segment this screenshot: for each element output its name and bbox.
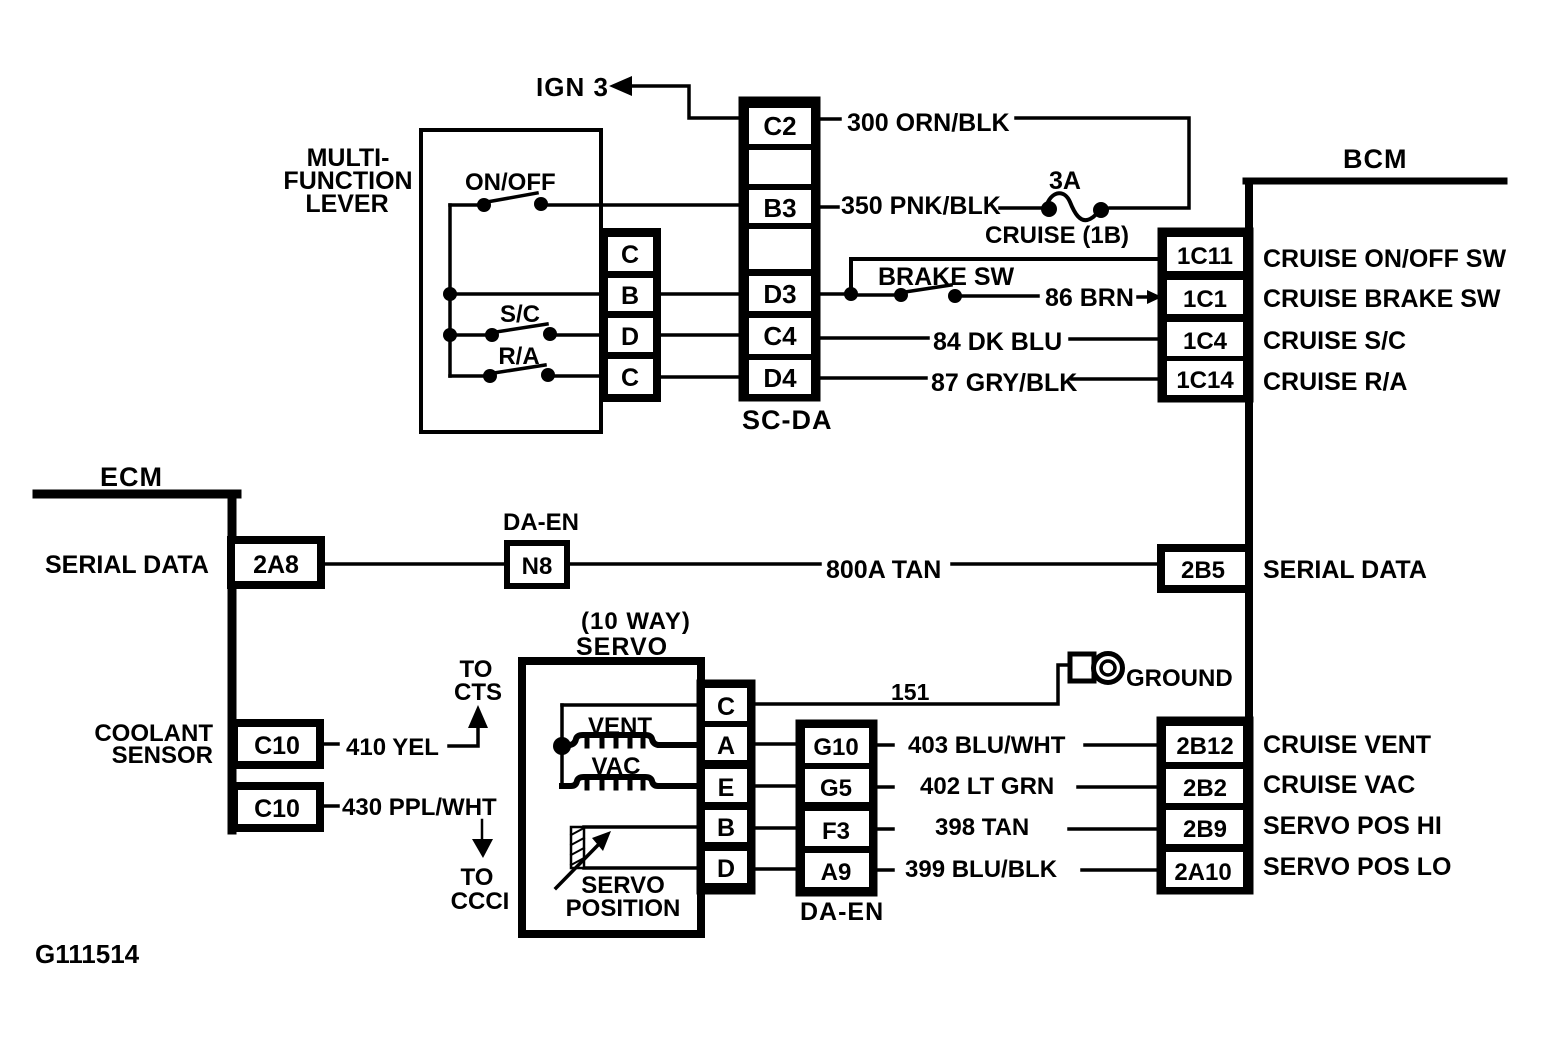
label COOLANT SENSOR <box>94 720 213 769</box>
svg-text:TO: TO <box>461 864 494 891</box>
wire 399 to 2A10 <box>1082 868 1160 872</box>
connector BCM group 1 outer <box>1160 230 1251 400</box>
svg-text:399 BLU/BLK: 399 BLU/BLK <box>905 856 1058 883</box>
wire servo common vertical <box>560 705 564 786</box>
arrowhead TO CCCI <box>472 839 493 858</box>
switch R/A <box>450 365 555 383</box>
connector cell D servo <box>705 851 747 883</box>
svg-text:2B9: 2B9 <box>1183 816 1227 843</box>
junction dot S/C row <box>443 328 457 342</box>
label TO CTS <box>454 656 502 706</box>
junction dot B row <box>443 287 457 301</box>
connector cell A servo <box>705 727 747 760</box>
connector servo 10-way outer <box>699 682 753 892</box>
switch ON/OFF <box>450 193 548 212</box>
potentiometer track servo position <box>571 827 584 868</box>
wire 151 ground <box>753 665 1070 704</box>
connector cell B servo <box>705 810 747 842</box>
arrowhead TO CTS <box>468 705 488 728</box>
wire F3 tick <box>875 827 893 831</box>
switch S/C <box>450 324 557 342</box>
svg-text:SC-DA: SC-DA <box>742 405 833 435</box>
svg-text:SERIAL DATA: SERIAL DATA <box>1263 556 1427 584</box>
potentiometer wiper arrow <box>556 831 611 888</box>
wire D3 to brake junction <box>818 292 848 296</box>
svg-text:D4: D4 <box>763 363 797 393</box>
connector cell C2 <box>749 108 811 144</box>
BCM top line <box>1246 178 1504 185</box>
svg-text:SERIAL DATA: SERIAL DATA <box>45 551 209 579</box>
svg-text:IGN 3: IGN 3 <box>536 72 609 102</box>
svg-text:G10: G10 <box>813 734 858 761</box>
wire B3 tick <box>818 205 838 209</box>
switch BRAKE SW <box>855 285 962 303</box>
connector cell G10 <box>805 728 869 763</box>
svg-text:300 ORN/BLK: 300 ORN/BLK <box>847 109 1010 137</box>
svg-text:POSITION: POSITION <box>566 895 681 922</box>
multi-function lever box <box>421 130 601 432</box>
connector cell D <box>608 318 653 352</box>
svg-text:SERVO POS LO: SERVO POS LO <box>1263 853 1451 881</box>
svg-text:CRUISE R/A: CRUISE R/A <box>1263 368 1407 396</box>
svg-text:A: A <box>717 732 735 760</box>
svg-text:1C4: 1C4 <box>1183 328 1228 355</box>
connector cell 1C1 <box>1167 280 1243 314</box>
svg-text:2A8: 2A8 <box>253 551 299 579</box>
connector cell E servo <box>705 769 747 802</box>
wire cell B to cell D3 <box>659 292 744 296</box>
coil VENT <box>562 735 702 746</box>
svg-text:2B12: 2B12 <box>1176 733 1233 760</box>
connector cell C servo <box>705 688 747 721</box>
svg-text:D: D <box>717 855 735 883</box>
svg-text:CRUISE VENT: CRUISE VENT <box>1263 731 1431 759</box>
svg-text:GROUND: GROUND <box>1126 665 1233 692</box>
svg-text:CCCI: CCCI <box>451 888 510 915</box>
wire S/C switch to cell D <box>554 333 604 337</box>
svg-text:CRUISE BRAKE SW: CRUISE BRAKE SW <box>1263 285 1501 313</box>
svg-text:C10: C10 <box>254 732 300 760</box>
connector N8 <box>507 543 567 586</box>
svg-text:151: 151 <box>891 679 930 705</box>
svg-text:87 GRY/BLK: 87 GRY/BLK <box>931 369 1077 397</box>
fuse 3A CRUISE <box>1041 193 1109 220</box>
svg-text:CRUISE S/C: CRUISE S/C <box>1263 327 1406 355</box>
wire A9 tick <box>875 868 893 872</box>
wire 84 DK BLU to 1C4 <box>1070 337 1162 341</box>
wire N8 to 800A TAN <box>570 562 820 566</box>
svg-text:C2: C2 <box>763 111 796 141</box>
wire C4 to 84 DK BLU <box>818 336 928 340</box>
svg-text:1C11: 1C11 <box>1177 243 1233 270</box>
svg-text:C10: C10 <box>254 795 300 823</box>
wire cell B to F3 <box>753 826 800 830</box>
svg-text:E: E <box>718 774 735 802</box>
connector SC-DA outer <box>741 99 818 399</box>
wire C10 upper tick <box>325 742 338 746</box>
connector C10 upper <box>234 723 320 765</box>
wire IGN3 feed to connector cell C2 <box>629 86 744 118</box>
svg-text:ON/OFF: ON/OFF <box>465 169 556 196</box>
wire D4 to 87 GRY/BLK <box>818 376 926 380</box>
svg-text:ECM: ECM <box>100 462 163 492</box>
svg-text:C4: C4 <box>763 321 797 351</box>
wire cell A to G10 <box>753 742 800 746</box>
svg-text:402 LT GRN: 402 LT GRN <box>920 773 1054 800</box>
svg-text:SERVO POS HI: SERVO POS HI <box>1263 812 1442 840</box>
svg-text:CRUISE (1B): CRUISE (1B) <box>985 222 1129 249</box>
wire cell E to G5 <box>753 784 800 788</box>
wire cell C to cell D4 <box>659 375 744 379</box>
ground terminal symbol <box>1070 654 1123 683</box>
wire lever common vertical <box>448 205 452 376</box>
wire 402 to 2B2 <box>1078 785 1160 789</box>
wire G10 tick <box>875 743 893 747</box>
svg-text:86 BRN: 86 BRN <box>1045 284 1134 312</box>
svg-text:B: B <box>717 814 735 842</box>
connector C10 lower <box>234 786 320 828</box>
svg-text:398 TAN: 398 TAN <box>935 814 1029 841</box>
svg-text:CRUISE ON/OFF SW: CRUISE ON/OFF SW <box>1263 245 1506 273</box>
arrowhead to IGN 3 <box>609 76 632 96</box>
connector cell C bottom <box>608 359 653 394</box>
wire cell D to A9 <box>753 867 800 871</box>
svg-text:SERVO: SERVO <box>576 633 668 661</box>
svg-text:410 YEL: 410 YEL <box>346 734 439 761</box>
connector DA-EN outer <box>798 722 875 894</box>
arrowhead into 1C1 <box>1147 290 1162 304</box>
svg-text:C: C <box>717 693 735 721</box>
svg-text:G5: G5 <box>820 775 852 802</box>
connector cell F3 <box>805 811 869 846</box>
wire brake switch to 86 BRN <box>959 294 1038 298</box>
wire 800A TAN to 2B5 <box>952 562 1160 566</box>
svg-text:1C1: 1C1 <box>1183 286 1227 313</box>
BCM vertical line <box>1245 183 1253 889</box>
connector cell 2B2 <box>1166 769 1243 803</box>
wire ON/OFF switch to cell B3 <box>545 203 744 207</box>
svg-text:(10 WAY): (10 WAY) <box>581 608 691 635</box>
svg-text:2B5: 2B5 <box>1181 557 1225 584</box>
wire 403 to 2B12 <box>1085 743 1160 747</box>
svg-text:403 BLU/WHT: 403 BLU/WHT <box>908 732 1066 759</box>
wire 300 ORN/BLK to fuse output <box>1016 118 1189 208</box>
connector blank cell 1 <box>749 150 811 184</box>
connector cell 2A10 <box>1166 852 1243 887</box>
connector cell C top <box>608 237 653 271</box>
svg-text:84 DK BLU: 84 DK BLU <box>933 328 1062 356</box>
connector cell B <box>608 278 653 311</box>
svg-text:C: C <box>621 241 639 269</box>
svg-text:DA-EN: DA-EN <box>800 898 884 926</box>
svg-text:CRUISE VAC: CRUISE VAC <box>1263 771 1415 799</box>
svg-text:CTS: CTS <box>454 679 502 706</box>
label TO CCCI <box>451 864 510 915</box>
label SERVO POSITION <box>566 872 681 922</box>
label MULTI-FUNCTION LEVER <box>283 144 412 218</box>
wire junction up to 1C11 <box>851 259 1162 294</box>
connector cell 1C4 <box>1167 322 1243 356</box>
junction dot servo common <box>553 737 571 755</box>
svg-text:S/C: S/C <box>500 301 540 328</box>
connector cell 1C14 <box>1167 361 1243 395</box>
ECM vertical line <box>228 494 237 830</box>
wire servo position to cell D <box>584 866 702 870</box>
wire common to cell B <box>450 292 604 296</box>
wire R/A switch to cell C <box>552 374 604 378</box>
wire 430 PPL/WHT down <box>481 820 484 841</box>
connector cell D4 <box>749 360 811 394</box>
svg-text:SENSOR: SENSOR <box>112 742 213 769</box>
connector 2B5 <box>1161 548 1249 589</box>
svg-text:A9: A9 <box>821 859 852 886</box>
connector cell 1C11 <box>1167 237 1243 271</box>
svg-text:N8: N8 <box>522 553 553 580</box>
wire C10 lower tick <box>325 804 338 808</box>
connector BCM group 2 outer <box>1159 719 1251 892</box>
connector 2A8 <box>231 540 321 585</box>
svg-text:D: D <box>621 323 639 351</box>
connector cell D3 <box>749 276 811 311</box>
svg-text:800A TAN: 800A TAN <box>826 556 941 584</box>
svg-text:350 PNK/BLK: 350 PNK/BLK <box>841 192 1001 220</box>
ECM top line <box>37 490 237 499</box>
wire 2A8 to N8 <box>326 562 507 566</box>
svg-text:LEVER: LEVER <box>305 190 388 218</box>
svg-text:2A10: 2A10 <box>1174 859 1231 886</box>
servo box <box>522 661 701 934</box>
svg-text:430 PPL/WHT: 430 PPL/WHT <box>342 794 497 821</box>
connector blank cell 2 <box>749 229 811 269</box>
connector cell 2B12 <box>1166 726 1243 762</box>
svg-text:G111514: G111514 <box>35 939 140 969</box>
wire servo position to cell B <box>584 825 702 829</box>
wire G5 tick <box>875 785 893 789</box>
svg-text:B3: B3 <box>763 193 796 223</box>
svg-text:C: C <box>621 364 639 392</box>
svg-text:F3: F3 <box>822 818 850 845</box>
connector cell C4 <box>749 318 811 354</box>
junction dot brake <box>844 287 858 301</box>
svg-text:1C14: 1C14 <box>1176 367 1234 394</box>
connector cell B3 <box>749 190 811 223</box>
svg-text:2B2: 2B2 <box>1183 775 1227 802</box>
wire servo common to cell C <box>562 703 702 707</box>
connector lever 4-way outer <box>602 230 659 400</box>
connector cell 2B9 <box>1166 810 1243 844</box>
connector cell G5 <box>805 769 869 802</box>
wire C2 tick <box>818 117 840 121</box>
svg-text:D3: D3 <box>763 279 796 309</box>
wire 410 YEL to CTS arrow <box>449 727 478 746</box>
svg-text:B: B <box>621 282 639 310</box>
wire arrow into 1C1 <box>1138 295 1150 299</box>
wire cell D to cell C4 <box>659 333 744 337</box>
coil VAC <box>562 777 702 788</box>
svg-text:3A: 3A <box>1049 167 1081 195</box>
wire 87 GRY/BLK to 1C14 <box>1072 377 1162 381</box>
wire 398 to 2B9 <box>1069 827 1160 831</box>
wire 350 PNK/BLK to fuse <box>1000 206 1043 210</box>
connector cell A9 <box>805 853 869 887</box>
svg-text:BCM: BCM <box>1343 144 1408 174</box>
svg-text:DA-EN: DA-EN <box>503 509 579 536</box>
